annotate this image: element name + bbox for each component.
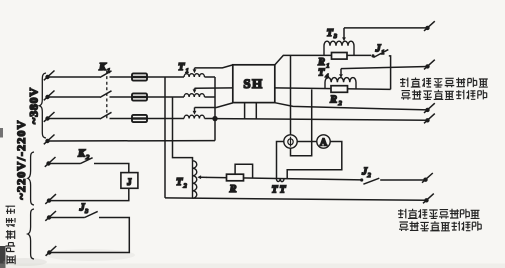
terminal timer a (45, 211, 56, 221)
variac T1 winding a (184, 74, 205, 77)
wire L1 down to return (164, 77, 166, 198)
wire phasemeter left to TT (277, 142, 284, 179)
wire star line to terminal 4 (215, 119, 428, 121)
switch K2 (81, 158, 93, 164)
annotation text: to AC voltage terminals of protection device (row 1) (400, 78, 488, 88)
svg-text:T: T (327, 28, 334, 39)
svg-text:2: 2 (368, 172, 372, 179)
resistor R1 (332, 53, 348, 60)
T4 tap arrow (339, 69, 343, 78)
terminal 380V L3 (44, 112, 55, 122)
phasemeter P (284, 135, 297, 148)
terminal I1 (422, 173, 433, 183)
relay J (121, 173, 138, 189)
variac T1 winding c (184, 115, 205, 118)
T1 tap arrow c (193, 108, 197, 115)
svg-text:4: 4 (325, 73, 329, 80)
terminal 380V L2 (44, 91, 55, 101)
terminal V1 (424, 21, 435, 31)
wire SH mid-right to R2 line (275, 88, 391, 90)
svg-text:1: 1 (107, 68, 110, 75)
rheostat R (227, 174, 244, 181)
terminal I2 (423, 194, 434, 204)
wire SH top-right to R1 line (275, 55, 371, 65)
wire J2 to terminal I1 (380, 179, 425, 181)
svg-text:3: 3 (333, 33, 338, 40)
T3 tap arrow (342, 28, 346, 41)
wire relay J return (51, 188, 129, 200)
variac T1 winding b (184, 94, 205, 97)
svg-text:3: 3 (84, 208, 89, 215)
scan smudge bottom-left corner (0, 246, 6, 268)
terminal 380V N (44, 135, 55, 145)
svg-text:T: T (318, 67, 325, 78)
resistor R2 (331, 86, 348, 93)
wire neutral (50, 140, 216, 142)
current transformer TT (276, 178, 284, 181)
transformer T3 winding (324, 41, 354, 56)
wire tap T3 to terminal 1 (344, 27, 428, 29)
svg-text:~220V/-220V: ~220V/-220V (14, 119, 28, 199)
wire phase L3 (50, 118, 216, 120)
R slider link (235, 164, 253, 178)
fuse F3 (132, 115, 147, 122)
svg-text:K: K (77, 149, 86, 160)
svg-text:J: J (127, 178, 132, 188)
wire current line R to J2 (206, 177, 362, 180)
brace 380V (39, 73, 46, 138)
annotation text: to AC voltage terminals of protection device (row 2) (401, 90, 487, 100)
switch J3 (85, 211, 98, 217)
brace 220V (28, 152, 34, 205)
annotation text: start millisecond timer (vertical) (6, 206, 16, 264)
svg-text:R: R (329, 95, 337, 106)
fuse F2 (132, 93, 147, 100)
fuse F1 (132, 73, 147, 80)
wire L2 down to T2 top (173, 97, 193, 161)
svg-text:T: T (178, 62, 185, 73)
T1 tap arrow a (193, 68, 197, 73)
wire phase L1 (50, 76, 216, 78)
wire J3 loop (51, 218, 129, 253)
wire tap T4 to terminal 2 (341, 67, 428, 69)
svg-text:1: 1 (186, 68, 189, 75)
transformer T4 winding (325, 78, 356, 90)
terminal V2 (424, 60, 435, 70)
variac T2 winding (193, 161, 197, 199)
terminal V3 (424, 103, 435, 113)
wire SH bottom-right to terminal 3 (275, 103, 428, 110)
switch J1 (371, 50, 388, 58)
svg-text:2: 2 (339, 100, 343, 107)
terminal V4 (424, 114, 435, 124)
T2 tap arrow (197, 175, 206, 179)
svg-text:T: T (176, 177, 183, 188)
wire SH bottom stub 1 (244, 103, 246, 119)
svg-text:R: R (229, 184, 237, 195)
wire tap b to SH (195, 87, 233, 89)
svg-text:T: T (272, 185, 279, 196)
svg-text:A: A (320, 137, 328, 148)
switch K1 (100, 71, 112, 121)
wire phasemeter to ammeter (297, 141, 317, 143)
wire phase L2 (50, 96, 216, 98)
svg-text:T: T (280, 185, 287, 196)
svg-text:R: R (317, 57, 325, 68)
wire SH output down to phasemeter (290, 55, 292, 134)
wire tap a to SH (195, 65, 233, 68)
annotation text: to AC current terminals of protection device (row 1) (398, 209, 479, 219)
wire star bus (214, 77, 216, 141)
wire ammeter right to TT (287, 142, 342, 179)
switch J2 (360, 178, 379, 184)
ammeter A (317, 135, 330, 149)
terminal 380V L1 (44, 71, 55, 81)
wire return line (165, 198, 427, 200)
wire phasemeter bottom to R2 line (291, 89, 312, 155)
scan mark left edge (0, 128, 3, 138)
terminal 220V b (45, 194, 56, 204)
svg-text:1: 1 (326, 62, 329, 69)
terminal 220V a (45, 157, 56, 167)
phase shifter SH (233, 65, 275, 103)
svg-text:K: K (98, 62, 107, 73)
svg-text:~380V: ~380V (27, 87, 41, 124)
svg-text:SH: SH (243, 76, 263, 91)
terminal timer b (46, 246, 57, 256)
wire J1 down to R2 line (389, 56, 391, 90)
junction star point (212, 116, 217, 121)
svg-text:2: 2 (184, 183, 188, 190)
wire K2 to relay J (51, 164, 129, 173)
svg-text:1: 1 (381, 49, 384, 56)
wire SH bottom stub 2 (255, 103, 257, 120)
brace start-timer pair (28, 209, 34, 259)
wire tap c to SH (195, 103, 233, 108)
annotation text: to AC current terminals of protection device (row 2) (399, 221, 481, 231)
T1 tap arrow b (193, 88, 197, 93)
